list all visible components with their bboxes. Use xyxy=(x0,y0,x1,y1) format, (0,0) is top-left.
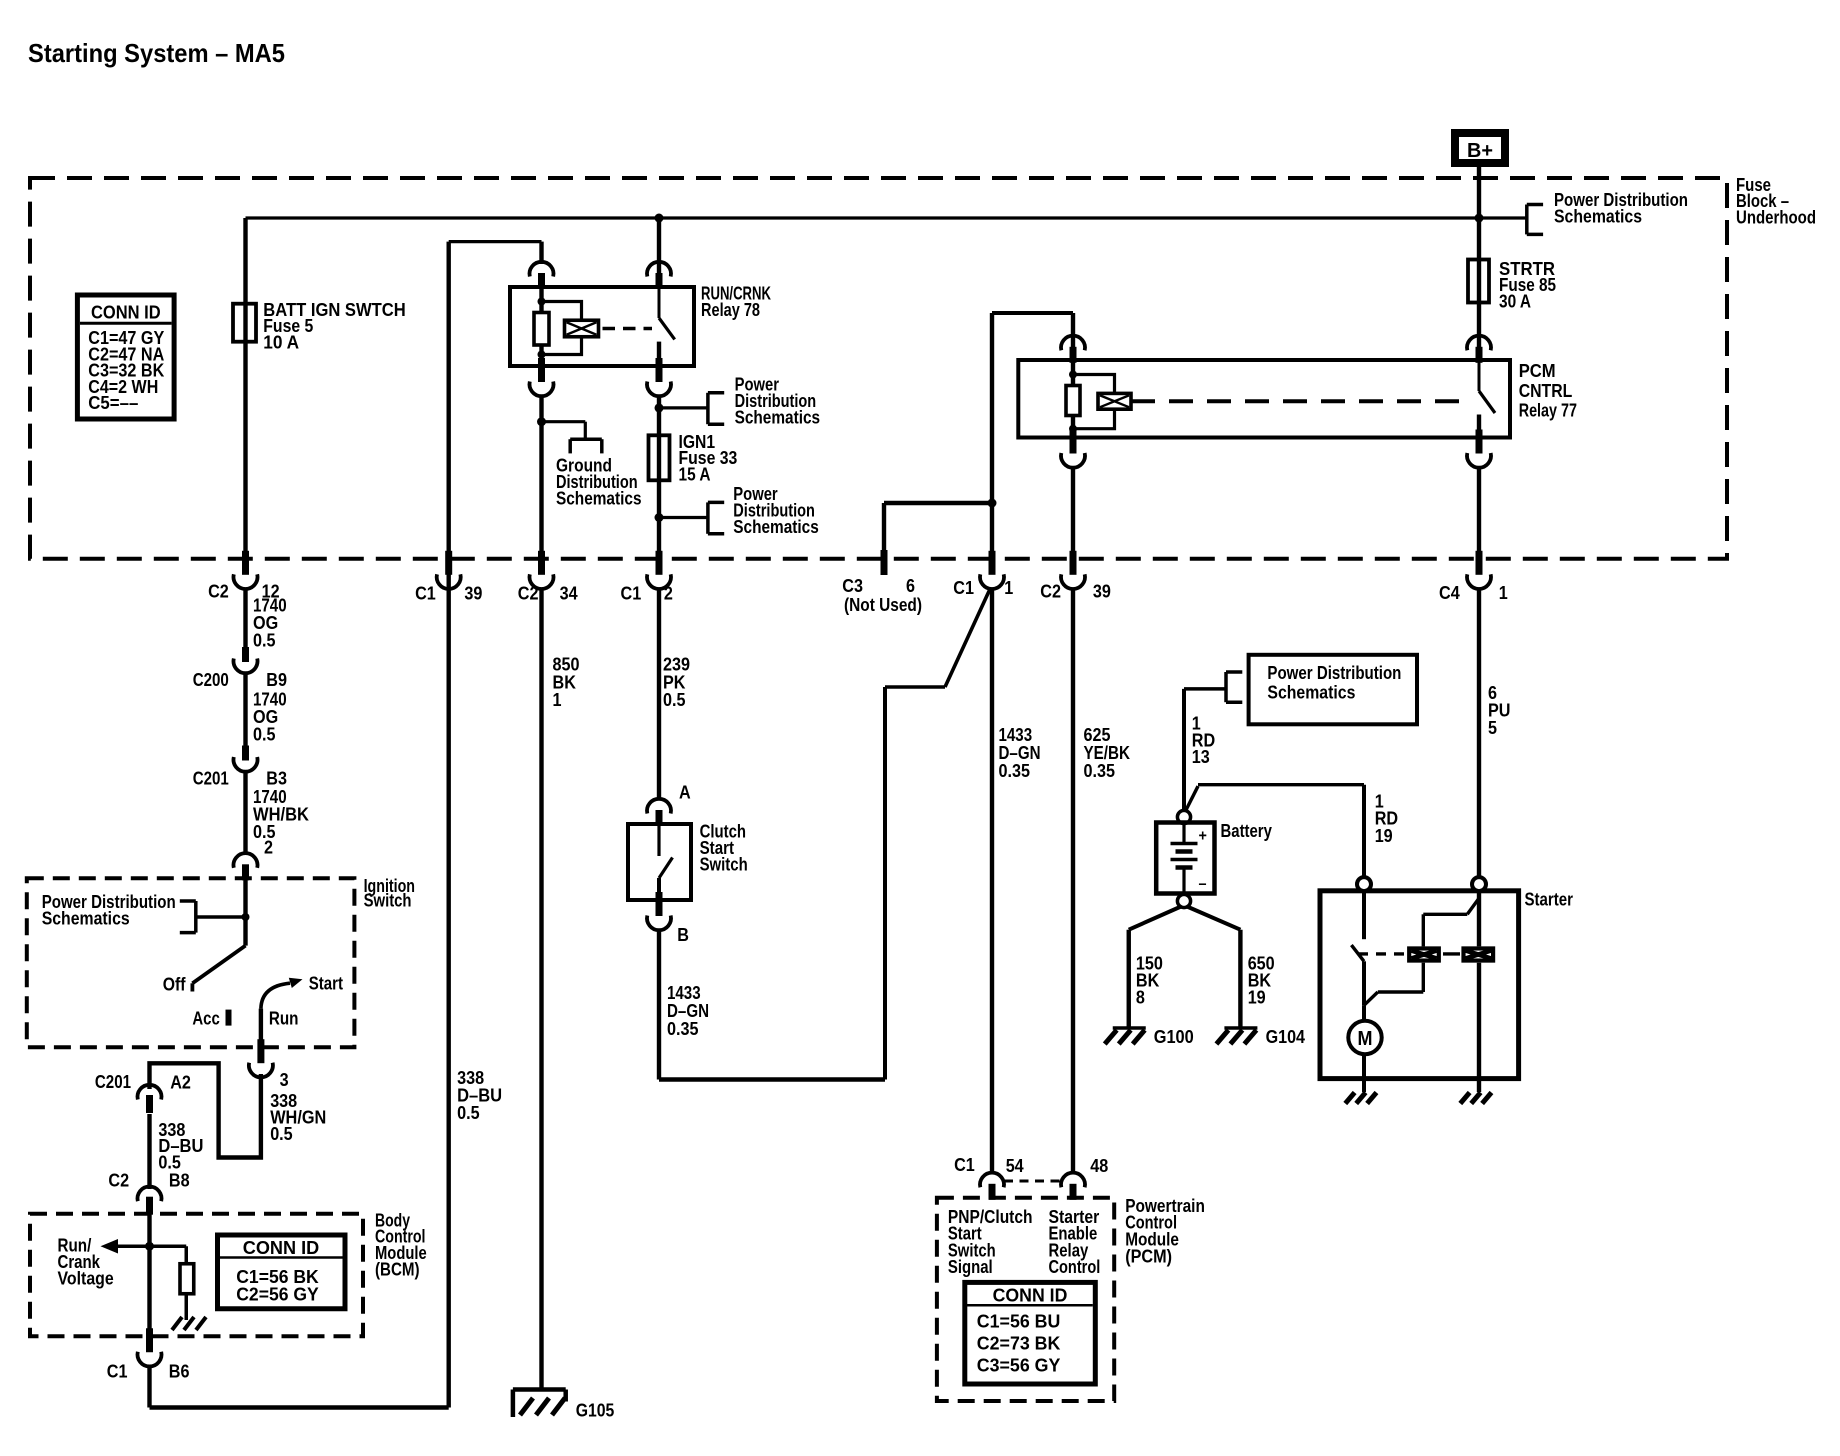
svg-text:Starter: Starter xyxy=(1525,890,1574,910)
svg-text:6: 6 xyxy=(906,576,915,596)
svg-text:8: 8 xyxy=(1136,988,1145,1008)
svg-text:B: B xyxy=(677,925,689,945)
svg-text:48: 48 xyxy=(1090,1156,1108,1176)
svg-text:CONN ID: CONN ID xyxy=(243,1238,320,1258)
svg-text:2: 2 xyxy=(264,838,273,858)
svg-text:0.5: 0.5 xyxy=(457,1103,480,1123)
svg-text:C1=56 BU: C1=56 BU xyxy=(977,1312,1061,1332)
svg-text:YE/BK: YE/BK xyxy=(1084,743,1131,763)
svg-text:Starting System – MA5: Starting System – MA5 xyxy=(28,38,285,68)
svg-text:1: 1 xyxy=(1004,578,1013,598)
svg-text:M: M xyxy=(1358,1028,1373,1050)
svg-text:10 A: 10 A xyxy=(263,333,299,353)
svg-text:C2: C2 xyxy=(108,1171,129,1191)
svg-text:34: 34 xyxy=(560,584,578,604)
svg-text:0.35: 0.35 xyxy=(667,1019,699,1039)
svg-text:Schematics: Schematics xyxy=(1554,207,1642,227)
svg-text:54: 54 xyxy=(1006,1156,1024,1176)
svg-text:C201: C201 xyxy=(95,1072,131,1092)
svg-text:Schematics: Schematics xyxy=(1267,683,1355,703)
svg-text:3: 3 xyxy=(280,1070,289,1090)
svg-text:C2=73 BK: C2=73 BK xyxy=(977,1333,1061,1353)
svg-text:Control: Control xyxy=(1049,1257,1101,1277)
svg-text:CONN ID: CONN ID xyxy=(91,303,161,323)
svg-text:A2: A2 xyxy=(170,1073,191,1093)
svg-text:0.35: 0.35 xyxy=(999,761,1031,781)
svg-text:(Not Used): (Not Used) xyxy=(844,595,922,615)
svg-text:B6: B6 xyxy=(169,1362,190,1382)
svg-text:C3=56 GY: C3=56 GY xyxy=(977,1355,1061,1375)
svg-text:+: + xyxy=(1199,828,1207,845)
svg-text:D–GN: D–GN xyxy=(999,743,1041,763)
svg-text:C1: C1 xyxy=(621,584,642,604)
svg-text:C1: C1 xyxy=(415,584,436,604)
svg-text:Relay 78: Relay 78 xyxy=(701,300,760,320)
svg-text:15 A: 15 A xyxy=(679,465,711,485)
svg-text:Voltage: Voltage xyxy=(58,1268,114,1288)
svg-text:Start: Start xyxy=(309,974,343,994)
svg-text:D–GN: D–GN xyxy=(667,1001,709,1021)
svg-text:Switch: Switch xyxy=(700,855,748,875)
svg-text:CONN ID: CONN ID xyxy=(993,1285,1068,1305)
svg-text:C1: C1 xyxy=(107,1362,128,1382)
svg-text:39: 39 xyxy=(464,584,482,604)
svg-text:C1: C1 xyxy=(954,1155,975,1175)
svg-text:1433: 1433 xyxy=(999,725,1033,745)
svg-text:C5=––: C5=–– xyxy=(88,393,138,413)
svg-text:Schematics: Schematics xyxy=(735,407,821,427)
svg-text:Schematics: Schematics xyxy=(42,908,130,928)
svg-text:C3: C3 xyxy=(842,576,863,596)
svg-text:0.5: 0.5 xyxy=(270,1124,293,1144)
svg-text:B+: B+ xyxy=(1467,140,1493,162)
svg-text:C4: C4 xyxy=(1439,583,1460,603)
svg-text:30 A: 30 A xyxy=(1499,292,1531,312)
svg-text:G100: G100 xyxy=(1154,1027,1194,1047)
svg-text:C200: C200 xyxy=(193,670,229,690)
svg-text:19: 19 xyxy=(1248,988,1266,1008)
svg-text:G104: G104 xyxy=(1266,1027,1305,1047)
svg-text:19: 19 xyxy=(1375,826,1393,846)
svg-text:5: 5 xyxy=(1488,718,1497,738)
svg-text:0.5: 0.5 xyxy=(663,690,686,710)
svg-text:Off: Off xyxy=(163,975,187,995)
svg-text:Signal: Signal xyxy=(948,1257,993,1277)
svg-text:Schematics: Schematics xyxy=(556,488,642,508)
svg-text:CNTRL: CNTRL xyxy=(1519,381,1573,401)
svg-text:C2: C2 xyxy=(518,584,539,604)
svg-text:Relay 77: Relay 77 xyxy=(1519,401,1577,421)
svg-text:39: 39 xyxy=(1093,582,1111,602)
svg-text:B3: B3 xyxy=(266,769,287,789)
svg-text:Power Distribution: Power Distribution xyxy=(1267,663,1401,683)
svg-text:0.5: 0.5 xyxy=(253,630,276,650)
svg-text:Battery: Battery xyxy=(1221,821,1272,841)
svg-text:Switch: Switch xyxy=(364,891,412,911)
svg-text:0.5: 0.5 xyxy=(253,725,276,745)
svg-text:B9: B9 xyxy=(266,670,287,690)
svg-text:2: 2 xyxy=(664,584,673,604)
svg-text:0.35: 0.35 xyxy=(1084,761,1116,781)
svg-text:B8: B8 xyxy=(169,1171,190,1191)
svg-text:0.5: 0.5 xyxy=(158,1152,181,1172)
svg-text:1: 1 xyxy=(1499,583,1508,603)
svg-text:1: 1 xyxy=(553,690,562,710)
svg-text:–: – xyxy=(1199,876,1207,893)
svg-text:(PCM): (PCM) xyxy=(1125,1247,1172,1267)
svg-text:Underhood: Underhood xyxy=(1736,208,1816,228)
svg-text:C2: C2 xyxy=(1040,582,1061,602)
svg-text:(BCM): (BCM) xyxy=(375,1260,420,1280)
svg-text:625: 625 xyxy=(1084,725,1111,745)
svg-text:Run: Run xyxy=(269,1009,299,1029)
svg-text:Schematics: Schematics xyxy=(733,517,819,537)
svg-text:1433: 1433 xyxy=(667,983,701,1003)
svg-text:Acc: Acc xyxy=(192,1009,219,1029)
svg-text:C201: C201 xyxy=(193,769,229,789)
svg-text:G105: G105 xyxy=(576,1401,615,1421)
svg-text:C2=56 GY: C2=56 GY xyxy=(236,1284,319,1304)
svg-text:A: A xyxy=(679,783,691,803)
svg-text:PCM: PCM xyxy=(1519,361,1556,381)
svg-text:C2: C2 xyxy=(208,582,229,602)
svg-text:13: 13 xyxy=(1192,747,1210,767)
svg-text:C1: C1 xyxy=(953,578,974,598)
